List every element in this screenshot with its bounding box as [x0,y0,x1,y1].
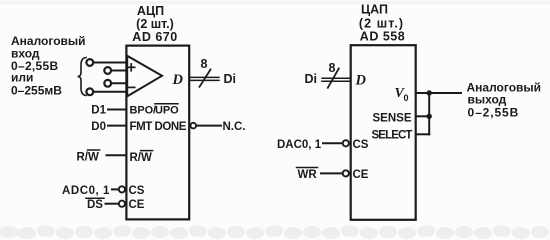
wire D1 to U1 BPO/UPO [108,109,126,111]
terminal input 1 [86,59,93,66]
svg-text:0–255мВ: 0–255мВ [11,84,62,98]
svg-text:CE: CE [353,169,369,181]
DAC U2 title "ЦАП (2 шт.) AD 558" [359,3,405,44]
wire V0 output to analog output label [416,92,461,94]
bus width slash [328,69,339,88]
wire ADC0,1 to CS [112,188,119,190]
wire terminal4 to U1 [94,91,127,93]
terminal input 4 [86,88,93,95]
inversion bubble on CE [119,201,125,207]
plus input marker [128,64,135,71]
junction dot V0/SENSE [427,90,432,95]
label analog input "Аналоговый вход 0–2,55В или 0–255мВ" [11,34,86,98]
label analog output "Аналоговый выход 0–2,55В" [467,81,542,120]
svg-text:D: D [172,72,184,88]
svg-text:D0: D0 [91,121,106,133]
svg-text:ADC0, 1: ADC0, 1 [62,185,110,197]
inversion bubble on U2 CE [343,170,349,176]
svg-text:CE: CE [129,199,145,211]
ADC U1 title "АЦП (2 шт.) AD 670" [132,4,177,44]
svg-text:SELECT: SELECT [372,130,413,142]
terminal input 3 [104,80,111,87]
inversion bubble on U2 CS [343,140,349,146]
svg-text:Di: Di [305,72,318,86]
svg-text:N.C.: N.C. [223,121,246,133]
svg-text:CS: CS [353,139,369,151]
inversion bubble on CS [119,186,125,192]
wire terminal1 to U1 [94,62,127,64]
svg-text:выход: выход [468,93,507,107]
svg-text:или: или [11,71,33,85]
wire SENSE feedback [416,115,429,117]
svg-text:DAC0, 1: DAC0, 1 [277,139,322,151]
svg-text:DS: DS [87,199,103,211]
svg-text:АЦП: АЦП [137,4,164,18]
wire SELECT feedback [416,133,429,135]
wire vertical feedback bus [428,93,430,134]
pin label V0 output of U2 [395,86,409,103]
svg-text:0–2,55В: 0–2,55В [468,106,520,120]
svg-text:ЦАП: ЦАП [361,3,388,17]
wire WR to CE [321,172,343,174]
svg-text:D1: D1 [91,105,106,117]
svg-text:CS: CS [129,185,145,197]
data bus Di to U2 double line [322,77,350,79]
svg-text:0: 0 [404,93,409,103]
minus input marker [128,86,135,88]
inversion bubble on FMT DONE output [191,123,197,129]
svg-text:(2 шт.): (2 шт.) [136,17,174,31]
wire terminal2 to comparator + [111,70,127,72]
svg-text:WR: WR [298,169,318,181]
ADC U1 AD670 body [126,46,189,220]
svg-text:R/W: R/W [130,152,153,164]
junction dot SENSE [427,114,432,119]
wire DAC0,1 to CS [323,142,343,144]
svg-text:Di: Di [224,72,237,86]
pin label BPO/UPO with overline [130,105,180,117]
svg-text:UPO: UPO [155,105,179,117]
svg-text:D: D [355,73,367,89]
label signal R/W external [77,152,100,164]
data bus U1 to Di double line [190,76,219,78]
brace grouping analog inputs [78,58,87,96]
comparator input stage of U1 [127,56,162,97]
DAC U2 AD558 body [351,45,416,220]
terminal input 2 [104,67,111,74]
svg-text:8: 8 [201,57,208,71]
svg-text:SENSE: SENSE [373,113,412,125]
bus width slash [200,70,211,87]
svg-text:(2 шт.): (2 шт.) [359,17,404,31]
svg-text:8: 8 [329,61,336,75]
wire terminal3 to comparator - [111,82,127,84]
svg-text:AD 670: AD 670 [132,30,177,44]
wire R/W to U1 [107,154,127,156]
svg-text:AD 558: AD 558 [360,30,405,44]
svg-text:BPO/: BPO/ [130,105,157,117]
wire FMT DONE to N.C. [196,125,221,127]
svg-text:FMT DONE: FMT DONE [130,121,187,133]
wire DS to CE [106,203,119,205]
svg-text:R/W: R/W [77,152,100,164]
wire D0 to U1 FMT DONE [108,125,126,127]
